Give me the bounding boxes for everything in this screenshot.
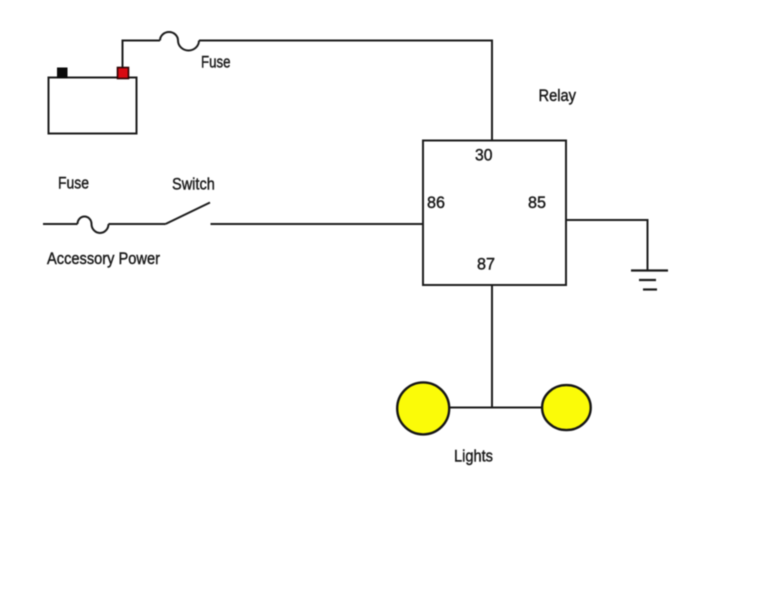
svg-text:87: 87 xyxy=(477,255,495,274)
battery positive terminal xyxy=(118,68,129,79)
svg-text:Accessory Power: Accessory Power xyxy=(47,249,160,268)
svg-text:Fuse: Fuse xyxy=(58,174,89,193)
wire fuse F1 to relay pin 30 xyxy=(199,41,492,141)
svg-text:Lights: Lights xyxy=(454,446,493,465)
svg-text:Switch: Switch xyxy=(172,174,215,193)
wire fuse F2 to switch S1 xyxy=(109,223,166,225)
wire lamp L1 to lamp L2 junction xyxy=(450,407,542,409)
ground xyxy=(631,271,668,290)
wire relay pin 87 to lights junction xyxy=(491,285,493,408)
wire relay pin 85 to ground xyxy=(566,220,648,270)
svg-text:30: 30 xyxy=(475,146,493,165)
svg-text:Fuse: Fuse xyxy=(201,53,231,72)
svg-text:Relay: Relay xyxy=(539,86,577,105)
fuse F1 xyxy=(160,32,199,50)
svg-text:85: 85 xyxy=(528,193,546,212)
wire switch S1 to relay pin 86 xyxy=(211,223,424,225)
battery negative terminal xyxy=(57,68,68,79)
wire battery positive to fuse F1 xyxy=(123,41,161,68)
fuse F2 xyxy=(78,217,109,233)
lamp L1 xyxy=(397,382,449,434)
battery B1 xyxy=(49,78,137,134)
lamp L2 xyxy=(542,385,591,430)
svg-text:86: 86 xyxy=(427,193,445,212)
switch S1 blade xyxy=(166,203,211,225)
wire accessory power to fuse F2 xyxy=(43,223,78,225)
relay K1 body xyxy=(423,141,566,286)
